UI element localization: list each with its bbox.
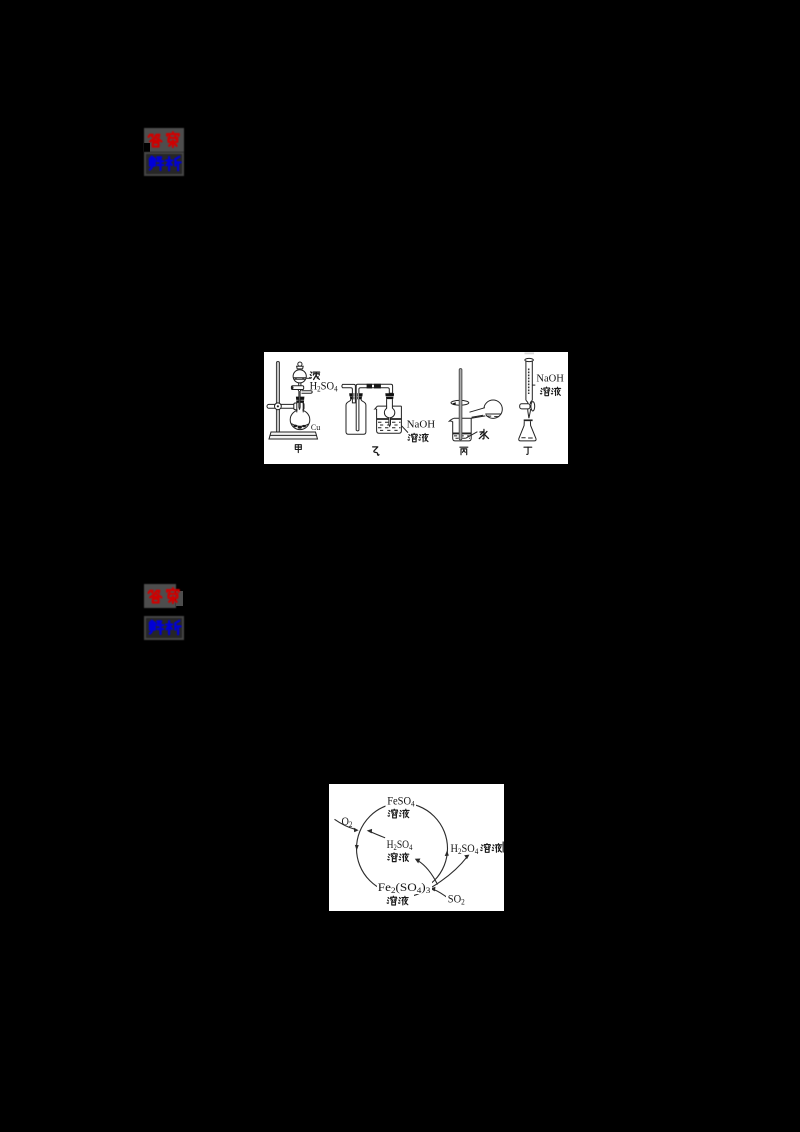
red tag 1 bbox=[144, 128, 184, 152]
liquid line in flask bbox=[291, 423, 308, 426]
cropped bracket bar bbox=[502, 841, 504, 852]
O2 inflow arrow bbox=[334, 819, 355, 829]
graduations bbox=[528, 368, 530, 394]
inlet tube left bbox=[342, 384, 356, 403]
wash bottle body bbox=[346, 396, 366, 434]
stopcock handle bbox=[520, 403, 530, 408]
Cu pieces bbox=[293, 424, 306, 428]
label jia bbox=[295, 444, 301, 452]
svg-text:H2SO4: H2SO4 bbox=[450, 843, 478, 856]
flask bulb bbox=[290, 410, 310, 430]
label shui bbox=[479, 429, 488, 439]
glass rod bbox=[459, 368, 462, 439]
H2SO4 to junction arrow bbox=[369, 831, 389, 839]
label rongye bbox=[408, 433, 428, 442]
stand rod bbox=[276, 361, 279, 432]
liquid dashes in flask bbox=[521, 436, 532, 438]
liquid in tilted flask bbox=[485, 413, 501, 415]
diagram 2: FeSO4 cycle bbox=[329, 784, 505, 912]
burette tube bbox=[526, 360, 532, 400]
svg-text:H2SO4: H2SO4 bbox=[310, 378, 338, 393]
blue tag 2 bbox=[144, 616, 184, 640]
blue tag 1 bbox=[144, 152, 184, 176]
erlenmeyer flask bbox=[524, 419, 533, 421]
label yi bbox=[373, 446, 379, 454]
label rongye ding bbox=[540, 387, 560, 396]
outflow arrow to H2SO4 solution bbox=[413, 856, 467, 895]
label ding bbox=[524, 447, 532, 454]
taper to stopcock bbox=[526, 400, 532, 404]
lower stem bbox=[298, 389, 300, 391]
diagram 1: lab apparatus 甲乙丙丁 bbox=[264, 352, 568, 464]
stopcock bbox=[291, 385, 303, 389]
side delivery tube bbox=[302, 390, 313, 392]
funnel top knob bbox=[298, 362, 302, 366]
svg-text:NaOH: NaOH bbox=[536, 372, 564, 384]
leader line bbox=[402, 425, 408, 432]
funnel stem bbox=[299, 382, 301, 385]
ring ellipse bbox=[451, 400, 469, 405]
clamp knob bbox=[275, 402, 282, 409]
svg-text:FeSO4: FeSO4 bbox=[387, 795, 415, 808]
label rongye top bbox=[388, 809, 409, 818]
small flask stopper bbox=[385, 393, 394, 396]
label nong bbox=[310, 371, 320, 379]
dropping funnel bulb bbox=[293, 369, 306, 382]
water in beaker bbox=[453, 432, 472, 435]
smudge above burette bbox=[525, 352, 535, 354]
flask neck pouring bbox=[470, 407, 487, 418]
svg-text:Fe2(SO4)3: Fe2(SO4)3 bbox=[377, 882, 430, 895]
tilted flask bulb bbox=[484, 400, 502, 418]
leader line to shui bbox=[465, 431, 477, 438]
svg-text:NaOH: NaOH bbox=[407, 418, 436, 430]
inner tube into flask bbox=[299, 391, 300, 410]
label rongye center bbox=[387, 852, 408, 861]
clamp jaw bbox=[294, 403, 304, 410]
label rongye bottom bbox=[387, 896, 408, 905]
NaOH solution in beaker bbox=[377, 417, 402, 420]
stand base bbox=[269, 432, 318, 439]
leader line to label bbox=[306, 377, 310, 379]
glyph defs (hand-drawn CJK strokes) bbox=[0, 0, 1, 1]
label bing bbox=[460, 447, 468, 455]
burette tip bbox=[528, 408, 531, 417]
svg-text:O2: O2 bbox=[341, 816, 352, 829]
flask neck bbox=[297, 402, 303, 412]
arrow to center rongye bbox=[418, 860, 438, 884]
red tag 2 bbox=[176, 591, 183, 606]
clamp arm bbox=[267, 404, 303, 408]
svg-text:H2SO4: H2SO4 bbox=[386, 839, 412, 852]
rubber connector bbox=[367, 383, 372, 388]
small flask bbox=[384, 407, 394, 417]
cycle circle bbox=[356, 803, 447, 894]
long tube and connecting tube bbox=[356, 384, 392, 431]
wash bottle stopper bbox=[349, 393, 363, 396]
arrowhead down on left arc bbox=[354, 844, 358, 850]
arrowhead up on right arc bbox=[444, 850, 448, 855]
svg-text:Cu: Cu bbox=[311, 423, 320, 432]
rubber stopper on flask bbox=[296, 396, 305, 399]
beaker of yi bbox=[375, 406, 378, 410]
SO2 inflow arrow bbox=[433, 889, 449, 899]
beaker of bing bbox=[449, 418, 454, 422]
